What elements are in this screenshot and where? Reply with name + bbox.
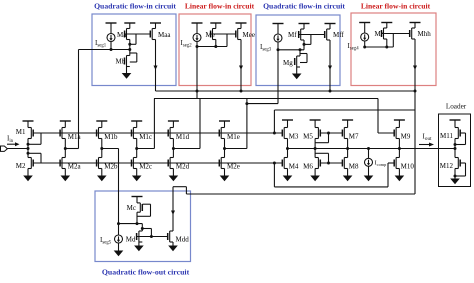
wire M2 source (27, 169, 29, 176)
transistor Mee (PMOS) (236, 29, 255, 40)
ground Md (134, 242, 144, 251)
wire M2a drain (64, 149, 66, 158)
ground M4 (283, 176, 293, 182)
wire Mb diode loop (130, 53, 137, 62)
wire M1b drain (101, 139, 103, 149)
svg-text:M1c: M1c (139, 133, 152, 141)
wire Mg drain up (299, 50, 301, 56)
label Icomp (375, 160, 387, 168)
ground M2a (61, 176, 71, 182)
vdd bar Mee (236, 22, 247, 24)
ground M8 (343, 176, 353, 182)
transistor M2e (NMOS) (219, 158, 240, 171)
current arrow box1 output (154, 66, 158, 71)
svg-text:M2b: M2b (104, 163, 118, 171)
current arrow box4 output (413, 66, 417, 71)
transistor M7 (PMOS) (342, 128, 359, 141)
vdd bar M3 (282, 119, 293, 121)
title Quadratic flow-in circuit 1 (94, 2, 176, 11)
wire M1d source stem (172, 121, 174, 128)
ground Iseg5 (114, 251, 124, 257)
vdd bar M1a (60, 120, 71, 122)
svg-text:M11: M11 (440, 132, 453, 140)
wire Ma diode tie (130, 34, 136, 44)
svg-text:M2e: M2e (227, 163, 240, 171)
transistor M6 (NMOS diode) (303, 158, 320, 171)
node M1/M2 drain (27, 147, 30, 150)
vdd bar M1 (23, 120, 34, 122)
junction Mc drain (136, 222, 139, 225)
junction M11 gate-drain (454, 143, 457, 146)
svg-text:M1b: M1b (104, 133, 118, 141)
wire M10 drain (398, 149, 400, 158)
junction Iseg2 column on bus (196, 90, 199, 93)
vdd bar M1e (219, 120, 230, 122)
vdd bar Iseg1 (106, 22, 117, 24)
svg-text:M6: M6 (303, 163, 313, 171)
wire Mhh drain output (414, 39, 416, 91)
node M1c/M2c drain (135, 147, 138, 150)
wire M2d source (172, 169, 174, 176)
wire M1b source stem (101, 121, 103, 128)
svg-text:Mb: Mb (116, 58, 126, 66)
wire M2c drain (136, 149, 138, 158)
vdd bar Iseg3 (273, 23, 284, 25)
wire M1 drain (27, 139, 29, 149)
wire Mf drain (303, 40, 305, 50)
vdd bar Mf (299, 23, 310, 25)
transistor M1d (PMOS) (168, 128, 189, 141)
junction M1 tie (27, 143, 30, 146)
wire Ma source stem (129, 23, 131, 29)
svg-text:Linear flow-in circuit: Linear flow-in circuit (361, 2, 431, 11)
wire Mdd drain (172, 187, 174, 231)
svg-text:Quadratic flow-in circuit: Quadratic flow-in circuit (263, 2, 345, 11)
node Iseg5 (117, 222, 120, 225)
current source Iseg5 (115, 235, 123, 243)
svg-text:Mhh: Mhh (418, 30, 432, 38)
transistor Mdd (NMOS) (168, 231, 190, 244)
wire W2 drop to M1e node (225, 99, 247, 149)
wire Md-Mdd gate rail (137, 236, 168, 238)
wire M2 diode tie (28, 153, 41, 163)
svg-text:M2: M2 (16, 162, 26, 170)
wire gate feed bus W2 (154, 98, 378, 100)
wire M6 source (314, 169, 316, 176)
wire M6-M8 gate rail (320, 162, 342, 164)
transistor M2 (NMOS diode) (16, 158, 33, 171)
wire M9 drain (398, 139, 400, 149)
transistor M1 (PMOS diode) (16, 128, 33, 139)
node M7/M8 (346, 147, 349, 150)
transistor Mg (NMOS diode) (283, 56, 300, 67)
title Linear flow-in circuit 1 (185, 2, 255, 11)
svg-text:M1a: M1a (68, 133, 82, 141)
junction box4 output on bus (414, 90, 417, 93)
svg-text:Maa: Maa (158, 31, 171, 39)
wire M4 source (287, 169, 289, 176)
wire output bus y91 (156, 90, 416, 92)
transistor Me (PMOS) (206, 29, 216, 40)
wire M12 source (454, 169, 456, 179)
junction node-Mb (128, 48, 131, 51)
wire W2 drop to M1d node (173, 99, 200, 149)
input port Iin (1, 146, 8, 151)
junction Iseg3 tie (245, 102, 248, 105)
ground M2 (23, 176, 33, 182)
title Quadratic flow-out circuit (102, 268, 190, 277)
wire Iseg2 node down exit (196, 47, 198, 99)
box quadratic flow-out circuit (95, 191, 191, 262)
junction M5 gate (327, 132, 330, 135)
wire M2c source (136, 169, 138, 176)
wire Iseg1 stem (110, 23, 112, 34)
wire Mff drain output (329, 40, 331, 91)
wire M12 drain (454, 149, 456, 158)
wire lower gate rail (33, 162, 282, 164)
wire M8 source (347, 169, 349, 176)
wire Mc source stem (136, 197, 138, 203)
junction box2 output on bus (240, 90, 243, 93)
transistor M1b (PMOS) (97, 128, 118, 141)
transistor M1c (PMOS) (132, 128, 153, 141)
vdd bar Mc (132, 196, 143, 198)
transistor Mb (NMOS diode) (116, 56, 130, 67)
wire M5 diode tie (315, 133, 328, 143)
wire Iseg2 to node (196, 42, 198, 47)
junction Me drain-node (214, 45, 217, 48)
wire Mh source stem (386, 23, 388, 29)
vdd bar Me (210, 22, 221, 24)
vdd bar Ma (124, 22, 135, 24)
wire Mf-Mff gate rail (299, 34, 325, 36)
wire M2a source (64, 169, 66, 176)
wire node to Ma (111, 49, 130, 51)
wire Iseg3 tie (247, 103, 278, 105)
wire M1a source stem (64, 121, 66, 128)
wire M2e drain (224, 149, 226, 158)
wire Maa drain output (155, 40, 157, 92)
junction loop lower rail (273, 162, 276, 165)
current arrow flow-out (171, 211, 175, 216)
ground Icomp (364, 176, 374, 182)
svg-text:Mf: Mf (288, 31, 297, 39)
wire Me-Mee gate rail (211, 33, 237, 35)
wire M1e drain (224, 139, 226, 149)
wire Iseg4 node to tie (365, 46, 394, 48)
wire M12 diode loop (455, 163, 466, 176)
transistor M9 (PMOS) (394, 128, 411, 141)
wire flow-out node (119, 223, 143, 225)
vdd bar Iseg2 (192, 22, 203, 24)
wire Me drain (215, 40, 217, 47)
transistor M2a (NMOS) (60, 158, 81, 171)
box linear flow-in circuit 2 (351, 13, 436, 86)
wire Mf source stem (303, 24, 305, 30)
wire M2 drain (27, 149, 29, 158)
vdd bar M1d (168, 120, 179, 122)
node Iseg4 (363, 46, 366, 49)
node M1e/M2e drain (223, 147, 226, 150)
node M1a/M2a drain (64, 147, 67, 150)
svg-text:Mdd: Mdd (176, 236, 190, 244)
transistor M11 (PMOS diode) (440, 128, 460, 141)
vdd bar Mh (381, 22, 392, 24)
junction Mf gate-drain (303, 43, 306, 46)
svg-text:Quadratic flow-in circuit: Quadratic flow-in circuit (94, 2, 176, 11)
ground M2d (169, 176, 179, 182)
node M9/M10 (398, 147, 401, 150)
wire M11 drain (454, 139, 456, 149)
wire M1c drain (136, 139, 138, 149)
vdd bar M7 (342, 119, 353, 121)
wire Ma-Maa gate rail (125, 33, 151, 35)
svg-text:M8: M8 (349, 163, 359, 171)
wire Mf diode tie (304, 35, 311, 45)
node M5/M6 (314, 147, 317, 150)
wire upper gate rail (33, 132, 282, 134)
wire M4-M10 gate underpath (274, 163, 394, 187)
svg-text:Mff: Mff (333, 31, 344, 39)
box quadratic flow-in circuit 2 (256, 15, 340, 86)
label Iseg1 (95, 39, 107, 49)
wire flow-out return (173, 187, 415, 194)
wire Iseg2 stem (196, 23, 198, 34)
vdd bar Mhh (410, 22, 421, 24)
wire Mg diode loop (300, 54, 307, 63)
junction Icomp (367, 147, 370, 150)
wire M3 drain (287, 139, 289, 149)
wire Md diode tie (142, 229, 151, 237)
wire Ma drain (129, 40, 131, 50)
label Iseg3 (260, 43, 272, 53)
wire M4 drain (287, 149, 289, 158)
arrow Iin (7, 142, 20, 146)
svg-text:M9: M9 (401, 133, 411, 141)
svg-text:Loader: Loader (446, 103, 467, 111)
node M1b/M2b drain (100, 147, 103, 150)
junction box3 output on bus (329, 90, 332, 93)
svg-text:M10: M10 (401, 163, 415, 171)
transistor M3 (PMOS) (282, 128, 299, 141)
wire Me source stem (215, 23, 217, 29)
wire M3 source stem (287, 120, 289, 128)
svg-text:M3: M3 (289, 133, 299, 141)
junction Md tie on rail (150, 235, 153, 238)
ground Mg (292, 67, 302, 79)
transistor M8 (NMOS) (342, 158, 359, 171)
current source Iseg3 (274, 34, 282, 42)
wire W2 to M9 gate (378, 99, 394, 134)
svg-text:Mg: Mg (283, 59, 293, 67)
label Iin (7, 135, 14, 145)
wire output node rail (288, 148, 456, 150)
ground M2e (220, 176, 230, 182)
svg-text:Mc: Mc (127, 204, 136, 212)
wire Mhh source stem (414, 23, 416, 29)
wire M1e source stem (224, 121, 226, 128)
vdd bar M1c (131, 120, 142, 122)
wire M7 source stem (347, 120, 349, 128)
transistor M1e (PMOS) (219, 128, 240, 141)
current arrow box2 output (239, 66, 243, 71)
title Linear flow-in circuit 2 (361, 2, 431, 11)
transistor M1a (PMOS) (60, 128, 81, 141)
junction Ma gate-drain (128, 43, 131, 46)
label Loader (446, 103, 467, 111)
wire M5 drain (314, 139, 316, 149)
junction node-Mg (299, 48, 302, 51)
wire Iseg1 node left exit (79, 49, 112, 51)
label Iout (423, 133, 433, 143)
wire M6 drain (314, 149, 316, 158)
arrow Iout (419, 143, 434, 147)
label Iseg4 (348, 42, 360, 52)
wire M11 diode loop (455, 133, 466, 145)
wire M7 drain (347, 139, 349, 149)
transistor M2d (NMOS) (168, 158, 189, 171)
svg-text:Mee: Mee (243, 31, 255, 39)
vdd bar M1b (96, 120, 107, 122)
wire Iseg1 to node (110, 42, 112, 50)
svg-text:M2c: M2c (139, 163, 152, 171)
transistor Maa (PMOS) (150, 29, 171, 40)
label Iseg5 (100, 236, 112, 246)
junction loop upper rail (273, 132, 276, 135)
vdd bar Mff (325, 23, 336, 25)
wire Mh-Mhh gate rail (382, 33, 410, 35)
transistor Mc (PMOS diode) (127, 203, 143, 212)
wire Md drain (141, 224, 143, 231)
vdd bar Maa (150, 22, 161, 24)
wire Iseg4 stem (364, 23, 366, 34)
junction Mh drain-node (385, 46, 388, 49)
node Loader (454, 147, 457, 150)
wire M2b source (101, 169, 103, 176)
svg-text:M12: M12 (440, 162, 454, 170)
node M3/M4 (286, 147, 289, 150)
wire M11 source stem (454, 120, 456, 128)
svg-text:Linear flow-in circuit: Linear flow-in circuit (185, 2, 255, 11)
wire Iseg2 node to tie (197, 46, 227, 48)
transistor Mff (PMOS) (325, 29, 345, 40)
transistor M2c (NMOS) (132, 158, 153, 171)
wire M2b drain (101, 149, 103, 158)
wire M1c source stem (136, 121, 138, 128)
wire Iin input (7, 148, 28, 150)
wire M1a drain (64, 139, 66, 149)
ground M10 (395, 176, 405, 182)
wire M1d drain (172, 139, 174, 149)
box quadratic flow-in circuit 1 (92, 14, 176, 86)
label Iseg2 (181, 39, 193, 49)
transistor M4 (NMOS) (282, 158, 299, 171)
transistor M10 (NMOS) (394, 158, 414, 171)
junction M6 gate (327, 162, 330, 165)
node Iseg2 (196, 45, 199, 48)
svg-text:M2a: M2a (68, 163, 82, 171)
transistor Ma (PMOS) (117, 29, 130, 40)
wire Mb drain up (129, 50, 131, 56)
vdd bar M9 (394, 119, 405, 121)
svg-text:Quadratic flow-out circuit: Quadratic flow-out circuit (102, 268, 190, 277)
wire Iseg3 node down exit (277, 50, 279, 104)
node Iseg3 (277, 48, 280, 51)
current source Icomp (365, 158, 373, 166)
ground Mb (122, 67, 132, 79)
wire Iseg3 stem (277, 24, 279, 35)
wire Mc diode loop (137, 204, 151, 216)
ground M2b (97, 176, 107, 182)
wire W2 drop to M1c node (137, 99, 155, 149)
wire Mc drain (136, 212, 138, 223)
wire M2d drain (172, 149, 174, 158)
transistor Mhh (PMOS) (410, 28, 432, 39)
box Loader (439, 114, 471, 187)
wire M6 diode tie (315, 153, 328, 163)
wire Iseg3 to node (277, 42, 279, 50)
node Iseg1 (110, 48, 113, 51)
svg-text:M1: M1 (16, 128, 26, 136)
transistor Md (NMOS diode) (126, 231, 143, 244)
box linear flow-in circuit 1 (179, 14, 251, 86)
wire M1 diode tie (28, 133, 41, 144)
wire M8 drain (347, 149, 349, 158)
vdd bar M11 (450, 119, 461, 121)
wire Iseg1 node down (65, 50, 78, 149)
junction M12 gate-source (454, 175, 457, 178)
wire Iseg5 to ground (118, 243, 120, 251)
ground Mdd (168, 242, 178, 251)
svg-text:Md: Md (126, 236, 136, 244)
current source Iseg4 (361, 33, 369, 41)
node M1d/M2d drain (172, 147, 175, 150)
wire feedback loop left lower (273, 163, 275, 187)
wire M1 source stem (27, 121, 29, 128)
wire Mee drain output (240, 40, 242, 92)
vdd bar M5 (310, 119, 321, 121)
wire Iseg5 stem (118, 224, 120, 235)
wire M2e source (224, 169, 226, 176)
wire feedback loop top (274, 110, 415, 133)
wire Mh diode tie (392, 34, 394, 48)
wire feedback loop right (414, 91, 416, 194)
wire Iseg4 to node (364, 41, 366, 47)
ground M2c (132, 176, 142, 182)
current arrow box3 output (328, 66, 332, 71)
svg-text:M1e: M1e (227, 133, 240, 141)
svg-text:M7: M7 (349, 133, 359, 141)
title Quadratic flow-in circuit 2 (263, 2, 345, 11)
vdd bar Iseg4 (359, 22, 370, 24)
wire M10 source (398, 169, 400, 176)
ground M12 (450, 179, 460, 185)
wire M5 source stem (314, 120, 316, 128)
wire Mff source stem (329, 24, 331, 30)
transistor M5 (PMOS diode) (303, 128, 320, 141)
svg-text:M5: M5 (303, 133, 313, 141)
svg-text:M4: M4 (289, 163, 299, 171)
transistor Mf (PMOS) (288, 29, 304, 40)
wire Iseg3 node to Mf (278, 49, 304, 51)
junction M2 tie (27, 152, 30, 155)
transistor Mh (PMOS) (375, 28, 387, 39)
ground M6 (310, 176, 320, 182)
transistor M12 (NMOS diode) (440, 158, 460, 171)
wire Icomp to ground (368, 166, 370, 175)
junction Md gate-drain (141, 227, 144, 230)
wire Mee source stem (240, 23, 242, 29)
